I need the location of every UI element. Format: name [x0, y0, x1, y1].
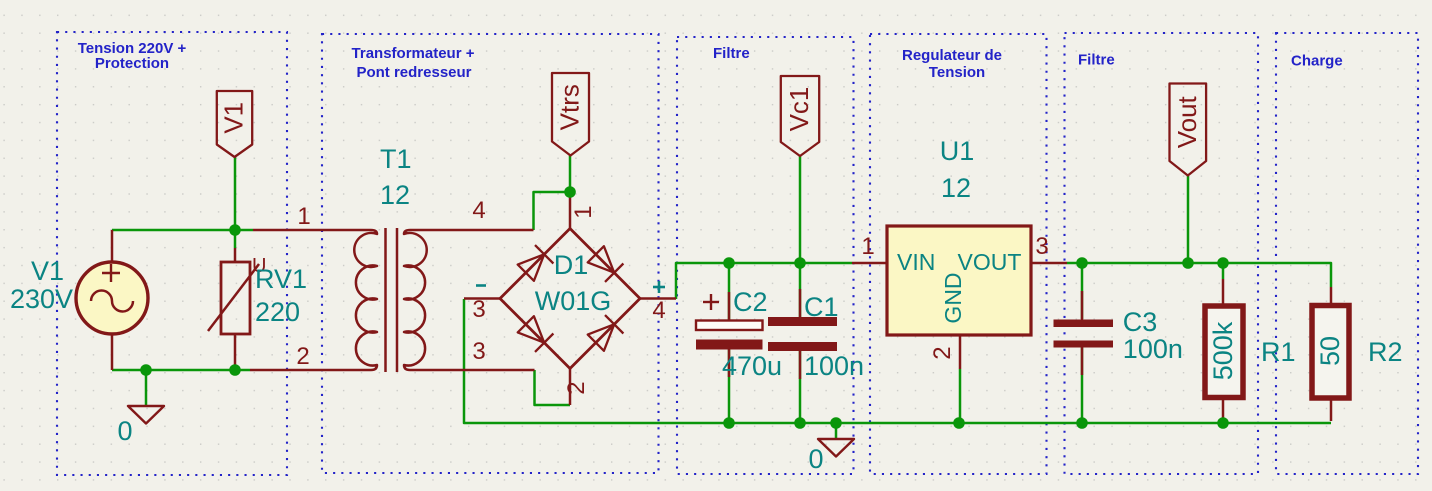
- svg-text:R2: R2: [1368, 337, 1403, 367]
- svg-text:100n: 100n: [1123, 334, 1183, 364]
- svg-text:1: 1: [297, 203, 310, 230]
- svg-text:220: 220: [255, 297, 300, 327]
- svg-text:D1: D1: [554, 250, 589, 280]
- svg-text:Filtre: Filtre: [1078, 52, 1115, 69]
- svg-text:W01G: W01G: [535, 286, 612, 316]
- svg-text:GND: GND: [940, 272, 966, 323]
- svg-text:Vout: Vout: [1172, 95, 1202, 148]
- svg-text:Vtrs: Vtrs: [555, 84, 585, 130]
- svg-text:Charge: Charge: [1291, 53, 1343, 70]
- svg-text:C1: C1: [804, 292, 839, 322]
- svg-text:R1: R1: [1261, 337, 1296, 367]
- svg-text:2: 2: [929, 346, 956, 359]
- svg-text:470u: 470u: [722, 351, 782, 381]
- svg-text:Filtre: Filtre: [713, 45, 750, 62]
- svg-text:100n: 100n: [804, 351, 864, 381]
- svg-text:1: 1: [570, 205, 597, 218]
- svg-text:4: 4: [652, 297, 665, 324]
- svg-text:Transformateur +: Transformateur +: [352, 45, 475, 62]
- svg-text:3: 3: [1035, 233, 1048, 260]
- svg-text:4: 4: [472, 197, 485, 224]
- svg-text:230V: 230V: [10, 284, 73, 314]
- svg-text:3: 3: [472, 296, 485, 323]
- svg-text:1: 1: [861, 233, 874, 260]
- svg-text:500k: 500k: [1208, 321, 1238, 380]
- svg-text:Tension: Tension: [929, 64, 985, 81]
- svg-text:Protection: Protection: [95, 55, 169, 72]
- svg-text:RV1: RV1: [255, 264, 307, 294]
- svg-text:Pont redresseur: Pont redresseur: [356, 64, 471, 81]
- svg-text:V1: V1: [219, 102, 249, 134]
- svg-text:U1: U1: [940, 136, 975, 166]
- svg-text:C3: C3: [1123, 307, 1158, 337]
- svg-text:0: 0: [808, 444, 823, 474]
- svg-text:Vc1: Vc1: [784, 87, 814, 132]
- svg-text:VOUT: VOUT: [958, 249, 1022, 275]
- svg-text:3: 3: [472, 338, 485, 365]
- svg-text:VIN: VIN: [897, 249, 935, 275]
- svg-text:12: 12: [941, 173, 971, 203]
- svg-text:V1: V1: [31, 256, 64, 286]
- svg-text:12: 12: [380, 180, 410, 210]
- svg-text:0: 0: [117, 416, 132, 446]
- svg-text:2: 2: [563, 381, 590, 394]
- svg-text:C2: C2: [733, 287, 768, 317]
- svg-text:2: 2: [296, 343, 309, 370]
- svg-text:Regulateur de: Regulateur de: [902, 47, 1002, 64]
- svg-text:50: 50: [1315, 336, 1345, 366]
- svg-text:T1: T1: [380, 144, 412, 174]
